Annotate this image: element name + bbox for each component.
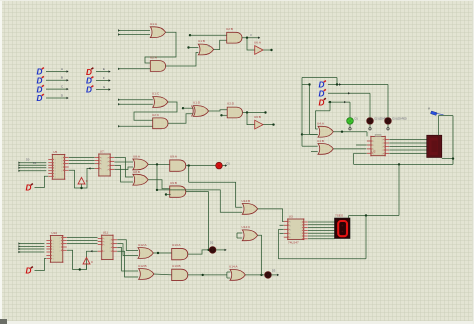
svg-text:0: 0 [86, 179, 88, 183]
svg-text:D2: D2 [210, 241, 214, 245]
svg-text:U14:A: U14:A [229, 265, 239, 269]
svg-text:U14:C: U14:C [242, 225, 252, 229]
svg-text:U13:B: U13:B [172, 264, 181, 268]
svg-text:D: D [37, 77, 43, 86]
svg-text:U2: U2 [372, 150, 376, 154]
svg-text:U1:D: U1:D [193, 101, 201, 105]
svg-text:U2:D: U2:D [227, 102, 235, 106]
svg-text:U5: U5 [53, 150, 57, 154]
svg-text:D: D [319, 98, 325, 107]
svg-text:U12:A: U12:A [138, 243, 148, 247]
svg-text:D: D [26, 184, 32, 193]
svg-text:G: G [103, 85, 105, 89]
svg-text:U11: U11 [103, 231, 109, 235]
svg-text:U8:A: U8:A [133, 155, 141, 159]
svg-text:D: D [86, 68, 92, 77]
svg-text:F: F [103, 76, 105, 80]
svg-text:D: D [61, 93, 63, 97]
svg-text:U14:B: U14:B [242, 199, 251, 203]
svg-text:U4:A: U4:A [317, 122, 325, 126]
svg-text:U2:C: U2:C [152, 113, 160, 117]
svg-text:C: C [61, 85, 63, 89]
svg-text:74LS47: 74LS47 [288, 241, 299, 245]
svg-text:U9:B: U9:B [170, 181, 177, 185]
svg-text:U2:A: U2:A [150, 56, 158, 60]
svg-text:D: D [86, 77, 92, 86]
svg-text:B: B [61, 76, 63, 80]
svg-text:U1:C: U1:C [152, 92, 160, 96]
svg-text:A: A [61, 67, 63, 71]
svg-text:V: V [428, 107, 430, 111]
svg-text:D3: D3 [272, 269, 276, 273]
svg-text:U12:B: U12:B [138, 264, 147, 268]
svg-text:E: E [103, 67, 105, 71]
svg-text:U1:B: U1:B [198, 39, 205, 43]
svg-text:D: D [319, 81, 325, 90]
svg-text:U2:B: U2:B [226, 27, 233, 31]
svg-text:U13:A: U13:A [172, 243, 182, 247]
svg-text:D: D [26, 267, 32, 276]
svg-text:U7: U7 [100, 150, 104, 154]
svg-text:7SEG: 7SEG [335, 214, 344, 218]
svg-text:U4:B: U4:B [317, 139, 324, 143]
svg-text:D3 LED-RED: D3 LED-RED [393, 118, 407, 121]
svg-text:U1:A: U1:A [150, 22, 158, 26]
svg-text:D: D [37, 85, 43, 94]
svg-text:U10: U10 [51, 231, 57, 235]
svg-text:0: 0 [91, 260, 93, 264]
svg-text:D: D [319, 90, 325, 99]
svg-text:D1: D1 [227, 162, 231, 166]
svg-text:U3: U3 [289, 215, 293, 219]
svg-text:U9:A: U9:A [170, 155, 178, 159]
svg-text:D1: D1 [355, 117, 359, 121]
svg-text:D0: D0 [26, 158, 30, 162]
svg-text:U8:B: U8:B [133, 170, 140, 174]
svg-text:U6:B: U6:B [254, 115, 261, 119]
svg-text:D: D [37, 68, 43, 77]
svg-text:D1: D1 [33, 161, 37, 165]
svg-text:D: D [86, 86, 92, 95]
svg-text:U6:A: U6:A [254, 41, 262, 45]
svg-text:D: D [37, 94, 43, 103]
